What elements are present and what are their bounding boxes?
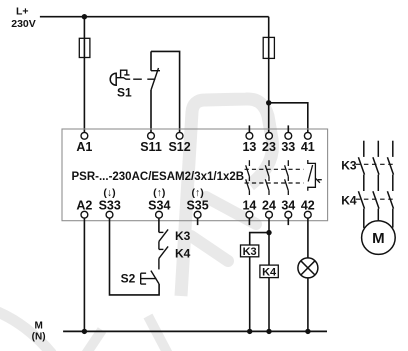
svg-text:23: 23: [262, 140, 276, 154]
lamp H1: [298, 258, 318, 278]
linkage dashed lines internal: [245, 168, 304, 170]
svg-text:M: M: [35, 320, 43, 331]
wire top supply rail L+: [40, 16, 269, 18]
svg-text:S35: S35: [186, 199, 208, 213]
terminal 13: [246, 132, 253, 139]
terminal 42: [304, 211, 311, 218]
svg-text:S12: S12: [168, 140, 190, 154]
coil K3: [241, 245, 259, 257]
wire branch to K3 coil: [250, 233, 269, 245]
svg-text:13: 13: [242, 140, 256, 154]
wire S34 down: [158, 218, 160, 232]
svg-text:(↑): (↑): [153, 187, 165, 199]
svg-text:(N): (N): [32, 331, 46, 342]
svg-text:K3: K3: [175, 229, 191, 243]
relay NC contact 41-42: [308, 160, 322, 191]
terminal circles top row: [81, 132, 311, 218]
svg-text:K3: K3: [243, 246, 257, 258]
relay contact K internal pole 13-14: [246, 160, 250, 195]
svg-text:K4: K4: [175, 247, 191, 261]
relay block PSR outline: [62, 129, 328, 221]
svg-text:PSR-...-230AC/ESAM2/3x1/1x2B: PSR-...-230AC/ESAM2/3x1/1x2B: [72, 169, 245, 183]
junction dots on rail: [82, 329, 87, 334]
terminal A1: [81, 132, 88, 139]
terminal S12: [176, 132, 183, 139]
wire S11 below S1 blade: [150, 90, 152, 132]
svg-text:A1: A1: [76, 140, 92, 154]
svg-text:S2: S2: [121, 271, 136, 285]
terminal 33: [285, 132, 292, 139]
svg-text:M: M: [372, 230, 385, 247]
terminal stubs 13 33 (unconnected): [198, 125, 289, 225]
terminal S33: [106, 211, 113, 218]
terminal A2: [81, 211, 88, 218]
terminal 14: [246, 211, 253, 218]
svg-text:A2: A2: [76, 199, 92, 213]
svg-text:K4: K4: [341, 193, 357, 207]
svg-text:(↑): (↑): [191, 187, 203, 199]
svg-text:(↓): (↓): [103, 187, 115, 199]
wire S33 loop: [110, 218, 160, 295]
contactor K4 power contacts: [358, 191, 393, 228]
contact K4 NC feedback: [159, 246, 168, 269]
svg-text:42: 42: [301, 199, 315, 213]
wire A1 drop: [83, 17, 85, 133]
svg-text:230V: 230V: [11, 18, 36, 30]
stubs bottom S35 14 34: [197, 218, 199, 225]
terminal 23: [266, 132, 273, 139]
svg-text:41: 41: [301, 140, 315, 154]
svg-text:K4: K4: [262, 266, 277, 278]
junction dot 24 branch: [266, 230, 271, 235]
contactor K3 power contacts: [358, 141, 393, 191]
terminal S11: [148, 132, 155, 139]
svg-text:S1: S1: [117, 85, 132, 99]
terminal 41: [304, 132, 311, 139]
svg-text:24: 24: [262, 199, 276, 213]
wire M (N) bottom rail: [63, 330, 327, 332]
svg-text:S34: S34: [148, 199, 170, 213]
fuse F1: [79, 38, 90, 57]
svg-text:14: 14: [242, 199, 256, 213]
coil K4: [260, 265, 278, 278]
junction dot branch 23/41: [266, 100, 271, 105]
wire branch to 41: [269, 103, 308, 133]
switch S1 emergency stop: [110, 68, 160, 90]
switch S2 start button: [141, 271, 159, 285]
wire S12 bracket to S1: [151, 51, 180, 132]
watermark: [0, 99, 273, 351]
svg-text:L+: L+: [16, 6, 29, 18]
wire A2 to M rail: [83, 218, 85, 331]
motor M1: [362, 221, 396, 255]
fuse F2: [263, 37, 274, 58]
svg-text:33: 33: [281, 140, 295, 154]
terminal 24: [266, 211, 273, 218]
junction dot on L+ rail: [82, 14, 87, 19]
terminal 34: [285, 211, 292, 218]
terminal S35: [194, 211, 201, 218]
contact K3 NC feedback: [159, 229, 168, 249]
svg-text:K3: K3: [341, 158, 357, 172]
svg-text:S11: S11: [140, 140, 162, 154]
wire 23 drop: [268, 17, 270, 133]
svg-text:34: 34: [281, 199, 295, 213]
relay contact internal pole 33-34: [285, 160, 289, 195]
relay contact internal pole 23-24: [265, 160, 269, 195]
wire 42 to lamp: [307, 218, 309, 258]
wire 24 down: [268, 218, 270, 265]
terminal S34: [156, 211, 163, 218]
svg-text:S33: S33: [99, 199, 121, 213]
